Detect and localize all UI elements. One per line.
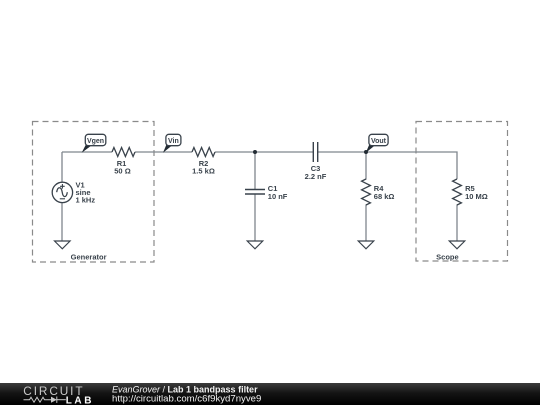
wire R2 to C3 <box>215 151 313 153</box>
wire C3 to scope corner <box>318 152 457 179</box>
wire R1 to R2 <box>135 151 192 153</box>
Scope dashed box <box>416 122 508 262</box>
R5 labels <box>465 184 488 201</box>
logo diode triangle <box>51 397 57 403</box>
svg-text:2.2 nF: 2.2 nF <box>305 172 327 181</box>
ground (R4) <box>358 241 374 249</box>
svg-text:LAB: LAB <box>66 395 94 405</box>
voltage source V1 <box>52 182 72 202</box>
capacitor C3 <box>313 142 317 162</box>
R1 labels <box>114 159 130 176</box>
wire R5 to ground <box>456 205 458 242</box>
svg-text:50 Ω: 50 Ω <box>114 167 130 176</box>
svg-text:1.5 kΩ: 1.5 kΩ <box>192 167 215 176</box>
wire C1 to ground <box>254 195 256 242</box>
resistor R4 <box>362 179 371 205</box>
wire Vout node to R4 <box>365 152 367 180</box>
R4 labels <box>374 184 395 201</box>
R2 labels <box>192 159 215 176</box>
svg-text:Vgen: Vgen <box>87 138 104 145</box>
resistor R2 <box>192 148 215 157</box>
svg-text:10 MΩ: 10 MΩ <box>465 192 488 201</box>
C1 labels <box>268 184 288 201</box>
wire main left (corner to R1) <box>62 151 112 153</box>
flag Vout <box>366 134 388 153</box>
Generator dashed box <box>33 122 155 263</box>
C3 labels <box>305 164 327 181</box>
flag Vin <box>163 134 181 153</box>
ground (R5) <box>449 241 465 249</box>
flag Vgen <box>82 134 106 153</box>
ground (C1) <box>247 241 263 249</box>
capacitor C1 <box>245 190 265 195</box>
svg-text:Generator: Generator <box>71 253 107 262</box>
svg-text:Vout: Vout <box>371 138 387 145</box>
wire node to C1 <box>254 152 256 189</box>
wire R4 to ground <box>365 205 367 242</box>
svg-text:68 kΩ: 68 kΩ <box>374 192 395 201</box>
svg-text:Vin: Vin <box>168 138 179 145</box>
resistor R5 <box>453 179 462 205</box>
svg-text:Scope: Scope <box>436 252 459 261</box>
junction node at C1 <box>253 150 257 154</box>
svg-text:http://circuitlab.com/c6f9kyd7: http://circuitlab.com/c6f9kyd7nyve9 <box>112 393 261 404</box>
svg-text:1 kHz: 1 kHz <box>76 196 96 205</box>
svg-text:10 nF: 10 nF <box>268 192 288 201</box>
logo schematic line with resistor and diode <box>24 397 66 403</box>
wire V1 bottom to ground <box>61 203 63 242</box>
junction node at Vout <box>364 150 368 154</box>
resistor R1 <box>112 148 135 157</box>
ground (V1) <box>55 241 71 249</box>
V1 labels <box>76 181 96 205</box>
wire V1 top vertical <box>61 152 63 182</box>
